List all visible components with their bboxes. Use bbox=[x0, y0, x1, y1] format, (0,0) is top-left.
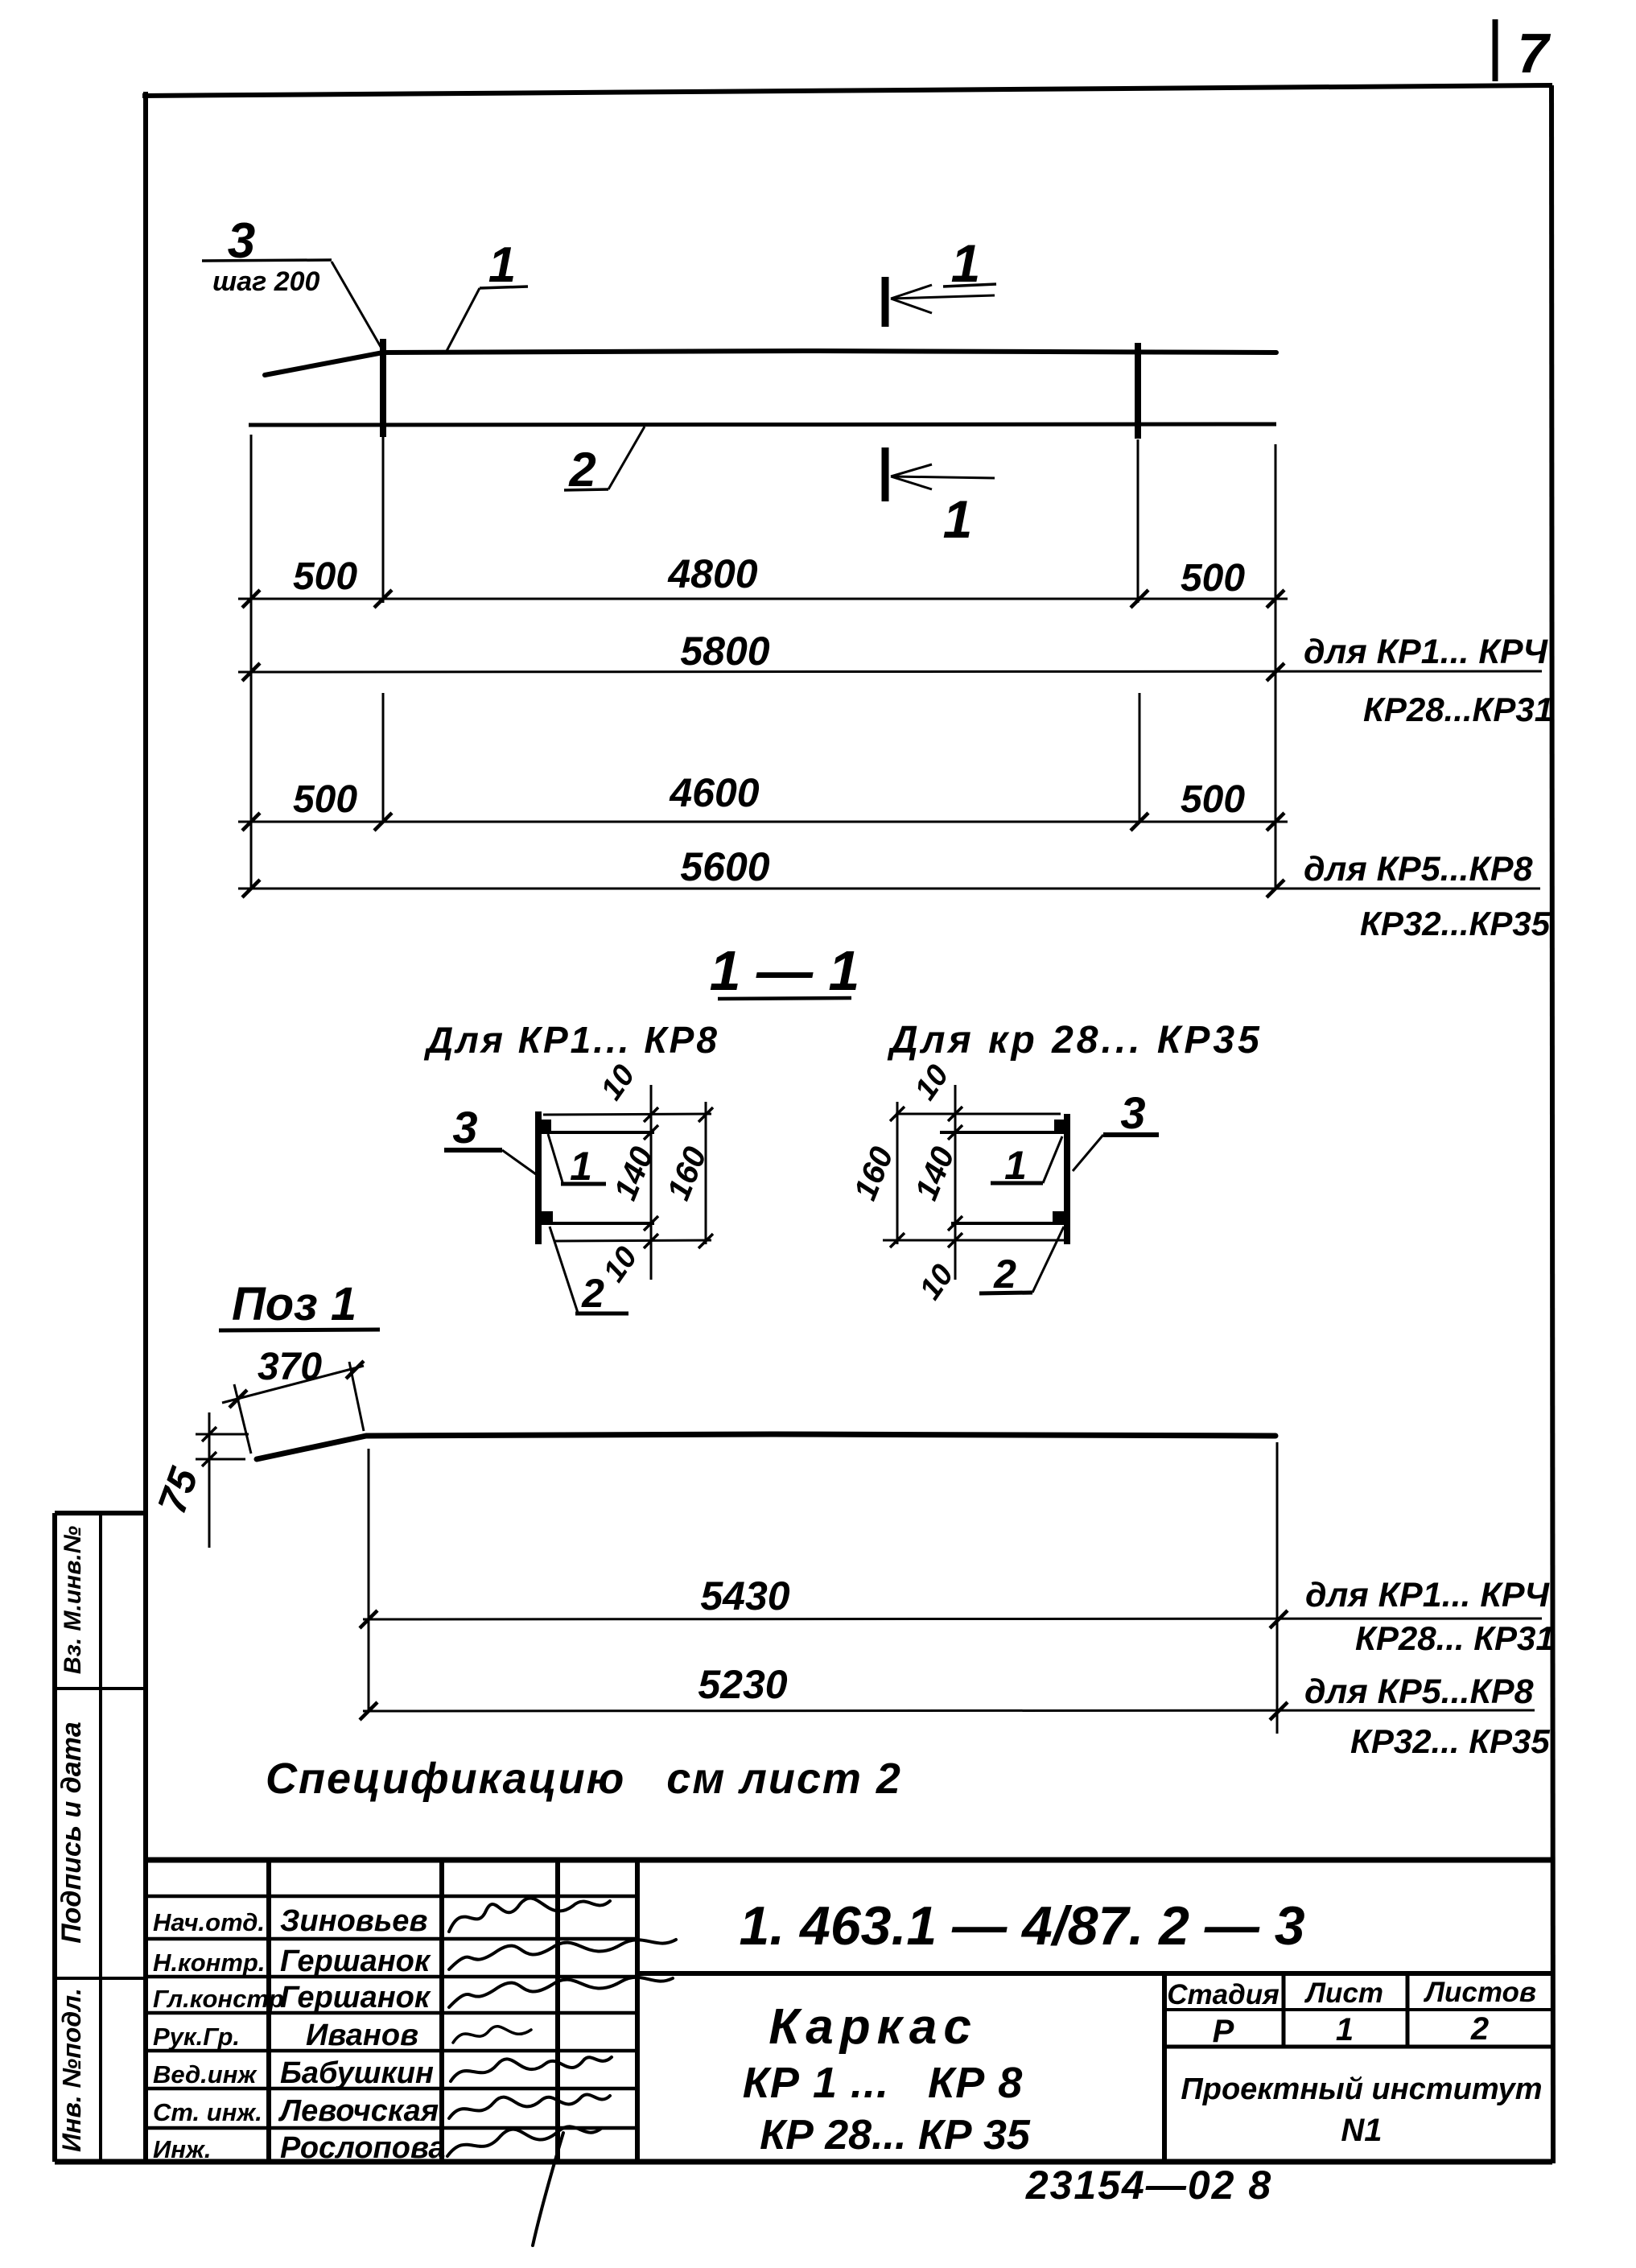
svg-text:Левочская: Левочская bbox=[278, 2094, 439, 2128]
svg-text:Лист: Лист bbox=[1304, 1977, 1383, 2009]
svg-text:370: 370 bbox=[258, 1346, 322, 1388]
svg-text:Р: Р bbox=[1213, 2014, 1234, 2049]
svg-text:Каркас: Каркас bbox=[769, 1999, 978, 2055]
svg-text:Инж.: Инж. bbox=[153, 2135, 211, 2163]
svg-text:Стадия: Стадия bbox=[1167, 1979, 1280, 2010]
svg-text:Вз. М.инв.№: Вз. М.инв.№ bbox=[60, 1526, 86, 1674]
svg-text:500: 500 bbox=[293, 778, 357, 821]
svg-text:Подпись и дата: Подпись и дата bbox=[56, 1722, 87, 1944]
svg-text:5430: 5430 bbox=[700, 1573, 789, 1619]
svg-text:3: 3 bbox=[452, 1102, 477, 1153]
svg-text:Для КР1... КР8: Для КР1... КР8 bbox=[423, 1019, 719, 1061]
svg-text:Вед.инж: Вед.инж bbox=[153, 2060, 258, 2089]
svg-text:Для кр 28... КР35: Для кр 28... КР35 bbox=[887, 1019, 1263, 1062]
svg-text:Иванов: Иванов bbox=[306, 2019, 418, 2052]
svg-text:Гл.констр: Гл.констр bbox=[153, 1985, 284, 2013]
svg-text:для КР5...КР8: для КР5...КР8 bbox=[1304, 850, 1533, 889]
svg-text:23154—02 8: 23154—02 8 bbox=[1025, 2163, 1272, 2208]
svg-text:шаг 200: шаг 200 bbox=[212, 266, 320, 297]
svg-text:2: 2 bbox=[993, 1252, 1016, 1297]
svg-text:Спецификацию см лист 2: Спецификацию см лист 2 bbox=[266, 1755, 902, 1803]
svg-text:КР28... КР31: КР28... КР31 bbox=[1355, 1619, 1555, 1657]
svg-text:Н.контр.: Н.контр. bbox=[153, 1948, 266, 1977]
svg-text:для КР1... КРЧ: для КР1... КРЧ bbox=[1305, 1576, 1551, 1614]
svg-text:4600: 4600 bbox=[669, 770, 759, 815]
svg-text:500: 500 bbox=[1181, 778, 1245, 821]
svg-text:Бабушкин: Бабушкин bbox=[280, 2056, 434, 2090]
svg-text:для КР1... КРЧ: для КР1... КРЧ bbox=[1304, 633, 1549, 671]
svg-text:5600: 5600 bbox=[680, 844, 769, 889]
svg-text:1: 1 bbox=[943, 489, 973, 549]
svg-text:Зиновьев: Зиновьев bbox=[280, 1904, 427, 1938]
svg-text:КР32... КР35: КР32... КР35 bbox=[1350, 1722, 1550, 1760]
svg-text:1 — 1: 1 — 1 bbox=[710, 939, 860, 1002]
svg-text:2: 2 bbox=[1470, 2011, 1489, 2047]
svg-text:Листов: Листов bbox=[1423, 1977, 1536, 2008]
svg-text:Гершанок: Гершанок bbox=[280, 1981, 431, 2014]
svg-text:5230: 5230 bbox=[698, 1662, 787, 1707]
svg-text:1: 1 bbox=[488, 237, 516, 293]
svg-text:Гершанок: Гершанок bbox=[280, 1944, 431, 1978]
svg-text:5800: 5800 bbox=[680, 629, 769, 674]
svg-text:500: 500 bbox=[1181, 557, 1245, 600]
svg-text:3: 3 bbox=[1120, 1087, 1145, 1138]
svg-text:500: 500 bbox=[293, 555, 357, 598]
svg-text:7: 7 bbox=[1518, 22, 1552, 85]
svg-text:1: 1 bbox=[1336, 2012, 1354, 2047]
svg-text:Нач.отд.: Нач.отд. bbox=[153, 1908, 265, 1936]
svg-text:для КР5...КР8: для КР5...КР8 bbox=[1304, 1672, 1534, 1711]
svg-text:Поз 1: Поз 1 bbox=[232, 1278, 356, 1330]
svg-text:2: 2 bbox=[581, 1271, 604, 1316]
svg-text:Проектный институт: Проектный институт bbox=[1181, 2072, 1542, 2106]
svg-text:Ст. инж.: Ст. инж. bbox=[153, 2098, 262, 2126]
svg-text:КР 1 ... КР 8: КР 1 ... КР 8 bbox=[743, 2059, 1024, 2107]
svg-text:Рук.Гр.: Рук.Гр. bbox=[153, 2023, 240, 2051]
svg-text:Инв. №подл.: Инв. №подл. bbox=[57, 1988, 86, 2152]
svg-text:КР 28... КР 35: КР 28... КР 35 bbox=[760, 2112, 1031, 2159]
svg-text:1. 463.1 — 4/87. 2 — 3: 1. 463.1 — 4/87. 2 — 3 bbox=[739, 1895, 1304, 1957]
svg-text:КР28...КР31: КР28...КР31 bbox=[1363, 691, 1553, 728]
svg-text:КР32...КР35: КР32...КР35 bbox=[1360, 905, 1551, 942]
svg-text:4800: 4800 bbox=[667, 551, 757, 596]
svg-text:Рослопова: Рослопова bbox=[280, 2131, 446, 2165]
svg-text:N1: N1 bbox=[1341, 2113, 1382, 2148]
